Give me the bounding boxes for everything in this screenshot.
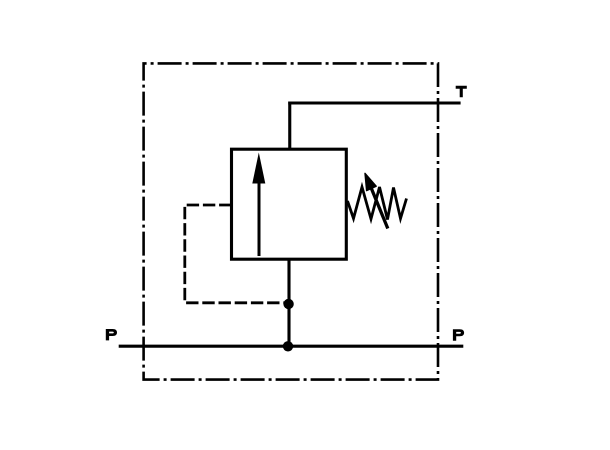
node P label left — [106, 329, 117, 340]
adjustment arrow through spring — [365, 173, 388, 228]
wire: T line horizontal — [288, 101, 460, 104]
valve body U1 (square envelope) — [232, 149, 347, 259]
wire: vertical from T line to valve top — [288, 102, 291, 150]
wire: valve bottom to P line — [287, 259, 290, 346]
junction dot upper — [283, 299, 293, 309]
flow arrow inside valve — [252, 153, 265, 257]
node T label — [456, 86, 467, 98]
wire: P line horizontal — [119, 345, 464, 348]
enclosure boundary (dash-dot frame) — [144, 63, 438, 379]
node P label right — [453, 329, 464, 340]
spring (zigzag) — [348, 187, 407, 220]
pilot line (dashed) — [185, 205, 285, 303]
junction dot on P line — [283, 341, 293, 351]
